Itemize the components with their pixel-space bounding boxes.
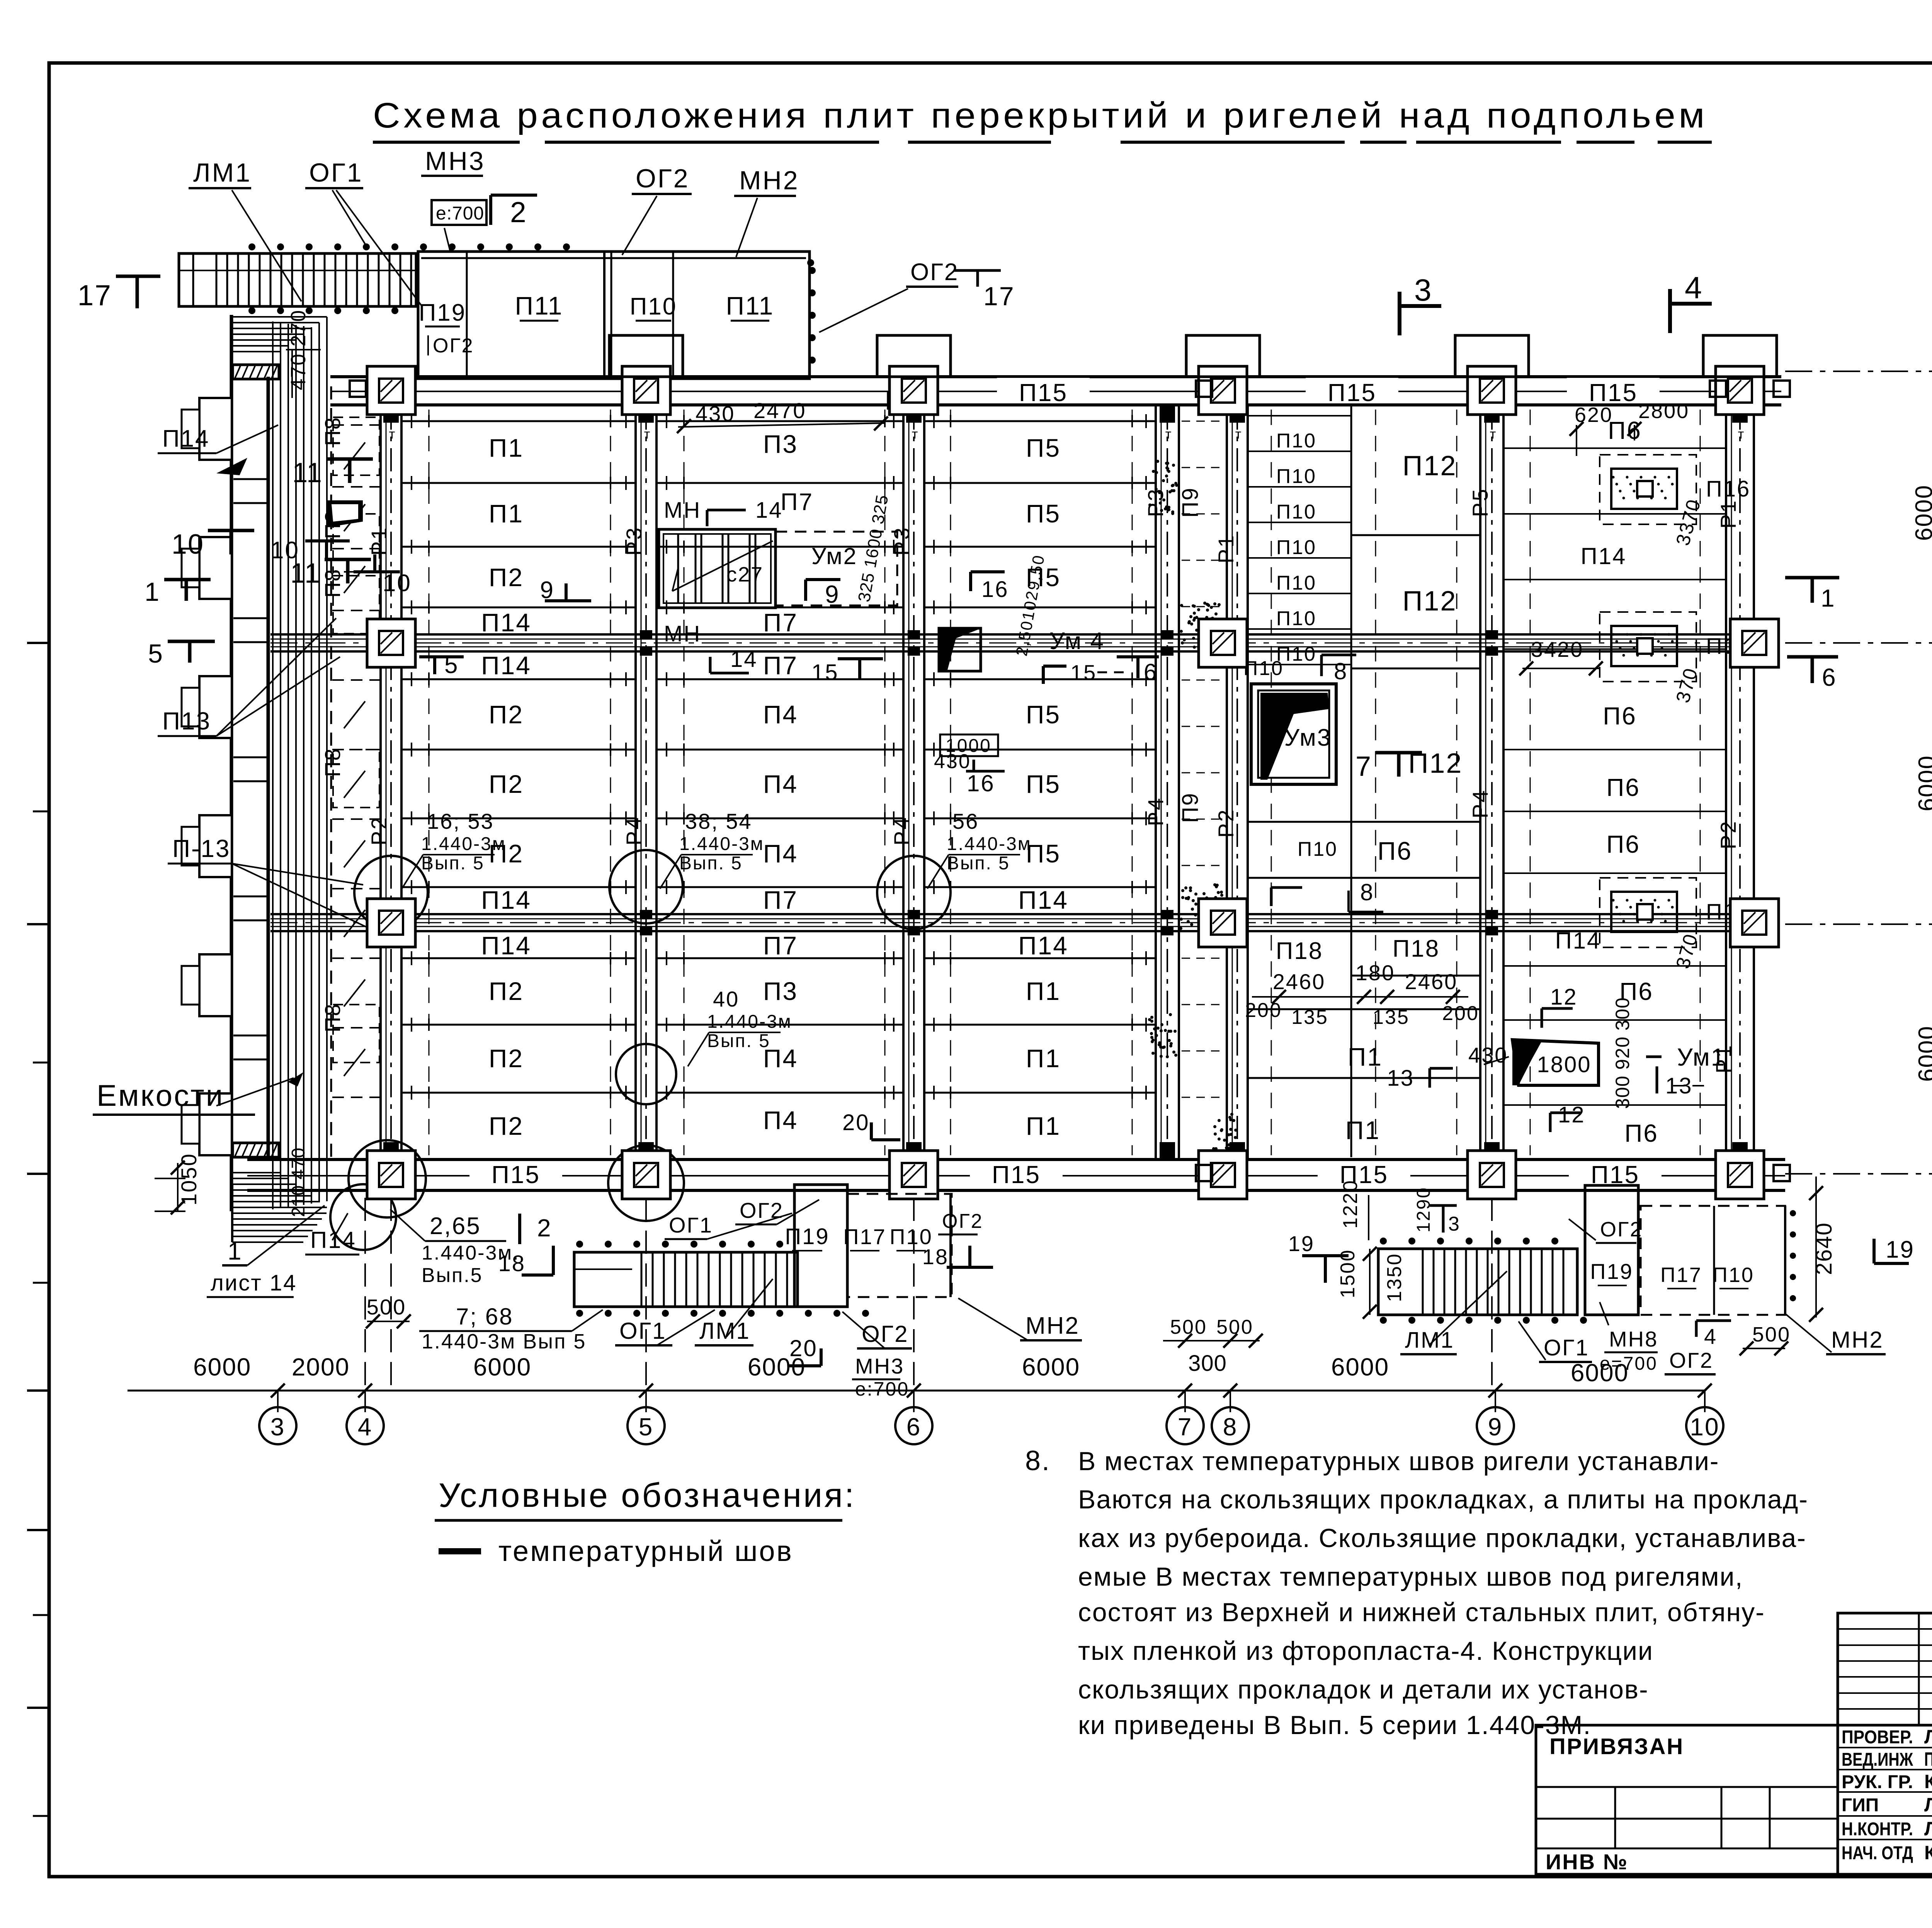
axis row В beam	[270, 633, 1731, 636]
tank bay divider lines	[233, 478, 267, 480]
svg-text:П12: П12	[1403, 451, 1457, 481]
svg-text:180: 180	[1355, 961, 1395, 985]
svg-text:15: 15	[811, 660, 839, 685]
svg-text:8.: 8.	[1025, 1445, 1051, 1476]
svg-text:П19: П19	[1590, 1259, 1633, 1284]
svg-text:Ум3: Ум3	[1284, 724, 1332, 751]
svg-text:10: 10	[172, 529, 204, 560]
svg-text:17: 17	[78, 279, 112, 311]
svg-text:19: 19	[1288, 1231, 1315, 1256]
svg-text:6000: 6000	[473, 1353, 531, 1381]
svg-text:5: 5	[148, 639, 164, 668]
svg-text:9: 9	[1488, 1413, 1503, 1441]
svg-text:5: 5	[444, 652, 459, 678]
svg-text:ки приведены В Вып. 5 серии 1.: ки приведены В Вып. 5 серии 1.440-3М.	[1078, 1710, 1591, 1740]
svg-text:Вып. 5: Вып. 5	[947, 853, 1010, 874]
svg-text:1.440-3м: 1.440-3м	[679, 834, 764, 854]
svg-text:т: т	[389, 427, 396, 442]
svg-text:П7: П7	[763, 651, 798, 680]
svg-text:ЛМ1: ЛМ1	[193, 158, 252, 187]
svg-text:состоят из Верхней и нижней ст: состоят из Верхней и нижней стальных пли…	[1078, 1598, 1765, 1627]
svg-text:П7: П7	[763, 931, 798, 960]
left tank walls (Емкости)	[230, 315, 233, 1211]
svg-text:П1: П1	[1026, 1044, 1061, 1073]
stipple patches at joint 7-8	[1155, 488, 1158, 491]
svg-text:П9: П9	[1178, 487, 1203, 518]
svg-text:14: 14	[755, 498, 783, 523]
svg-text:П7: П7	[781, 489, 813, 515]
svg-text:ОГ2: ОГ2	[433, 335, 474, 357]
svg-text:6000: 6000	[1022, 1353, 1080, 1381]
svg-text:П14: П14	[1555, 928, 1601, 954]
svg-text:1: 1	[228, 1237, 243, 1265]
svg-text:МН2: МН2	[1831, 1327, 1884, 1353]
svg-text:МН3: МН3	[425, 146, 485, 176]
svg-text:135: 135	[1291, 1006, 1328, 1029]
svg-text:430: 430	[934, 750, 971, 773]
svg-text:ЛМ1: ЛМ1	[1405, 1328, 1454, 1353]
svg-text:П10: П10	[1276, 607, 1316, 630]
svg-text:П17: П17	[1660, 1263, 1702, 1287]
svg-text:8: 8	[1360, 879, 1374, 905]
svg-text:П10: П10	[1713, 1263, 1754, 1287]
bottom axis circles and dimension line	[128, 1390, 1705, 1392]
svg-text:1800: 1800	[1537, 1052, 1591, 1077]
svg-text:1.440-3м: 1.440-3м	[707, 1012, 792, 1032]
8| mark bay 8 area	[1270, 887, 1273, 906]
svg-text:ках из рубероида. Скользящие п: ках из рубероида. Скользящие прокладки, …	[1078, 1523, 1806, 1553]
right axis circles and dim chain	[1785, 371, 1932, 372]
svg-text:т: т	[1165, 427, 1173, 442]
svg-text:17: 17	[983, 282, 1015, 311]
svg-text:МН2: МН2	[1026, 1313, 1080, 1339]
svg-text:ОГ1: ОГ1	[669, 1213, 713, 1237]
vertical beams (ригели)	[379, 406, 382, 1158]
svg-text:П5: П5	[1026, 700, 1061, 729]
svg-text:ОГ2: ОГ2	[636, 164, 690, 193]
svg-text:2,65: 2,65	[430, 1213, 481, 1239]
markers Т5, 15, 9, 10 etc	[433, 657, 436, 674]
svg-text:7: 7	[1355, 751, 1372, 782]
svg-text:8: 8	[1334, 658, 1348, 684]
horizontal band А (П15)	[247, 1158, 1785, 1161]
svg-text:П3: П3	[763, 430, 798, 458]
svg-text:П14: П14	[1018, 931, 1068, 960]
section marks 3,4 top	[1398, 292, 1401, 335]
svg-text:6: 6	[1822, 663, 1837, 691]
svg-text:18: 18	[922, 1245, 949, 1269]
svg-text:П18: П18	[1276, 938, 1323, 964]
svg-text:2460: 2460	[1405, 969, 1458, 994]
svg-text:П11: П11	[726, 291, 774, 320]
svg-text:Ум 4: Ум 4	[1049, 628, 1105, 655]
svg-text:П2: П2	[489, 700, 524, 729]
svg-text:10: 10	[1690, 1413, 1719, 1441]
svg-text:П15: П15	[1019, 379, 1068, 406]
svg-text:П14: П14	[1581, 543, 1627, 569]
svg-text:2000: 2000	[292, 1353, 350, 1381]
svg-text:П14: П14	[1018, 886, 1068, 914]
svg-text:ЛОУЦКЕР: ЛОУЦКЕР	[1924, 1726, 1932, 1748]
svg-text:210 470: 210 470	[288, 1147, 309, 1217]
В/Б Т-marks at columns	[1811, 578, 1814, 603]
svg-text:9: 9	[540, 577, 554, 604]
svg-text:П10: П10	[1276, 572, 1316, 594]
svg-text:Р2: Р2	[1214, 808, 1238, 838]
svg-text:19: 19	[1886, 1236, 1915, 1263]
svg-text:с27: с27	[726, 563, 764, 586]
svg-text:П6: П6	[1608, 417, 1642, 444]
svg-text:430: 430	[696, 401, 735, 426]
svg-text:20: 20	[789, 1335, 818, 1361]
svg-text:Р5: Р5	[1468, 488, 1492, 517]
black wedge + Ум4 bay 6-7 near В	[939, 628, 981, 671]
svg-text:200: 200	[1442, 1002, 1479, 1025]
svg-text:135: 135	[1372, 1006, 1410, 1029]
tank bottom cap extension below А	[232, 1212, 327, 1214]
svg-text:3: 3	[1414, 273, 1433, 307]
upper stair ЛМ1	[179, 253, 416, 306]
svg-text:Ум1: Ум1	[1677, 1043, 1726, 1071]
slab edge lines per bay	[402, 420, 636, 422]
svg-text:1: 1	[1821, 584, 1836, 612]
svg-text:3420: 3420	[1531, 637, 1584, 661]
svg-text:П10: П10	[1276, 430, 1316, 452]
svg-text:П14: П14	[481, 931, 531, 960]
svg-text:т: т	[1490, 427, 1497, 442]
svg-text:П10: П10	[1243, 657, 1284, 680]
svg-text:П2: П2	[489, 1112, 524, 1140]
svg-text:П6: П6	[1606, 830, 1640, 858]
axis row Б beam	[270, 913, 1731, 915]
beam end stubs	[383, 406, 399, 423]
svg-text:ОГ2: ОГ2	[942, 1210, 983, 1233]
bottom-right stairs	[1378, 1249, 1577, 1315]
svg-text:П11: П11	[515, 291, 563, 320]
svg-text:5: 5	[639, 1413, 654, 1441]
svg-text:ВЕД.ИНЖ: ВЕД.ИНЖ	[1842, 1749, 1913, 1770]
svg-text:3: 3	[1448, 1213, 1461, 1235]
svg-text:Вып. 5: Вып. 5	[421, 853, 485, 874]
svg-text:ОГ1: ОГ1	[619, 1318, 667, 1344]
svg-text:2460: 2460	[1273, 969, 1326, 994]
svg-text:МН3: МН3	[855, 1354, 904, 1378]
svg-text:ПРИВЯЗАН: ПРИВЯЗАН	[1549, 1734, 1684, 1759]
svg-text:П1: П1	[489, 499, 524, 528]
svg-text:РУК. ГР.: РУК. ГР.	[1842, 1772, 1913, 1792]
svg-text:ЛОУЦКЕР: ЛОУЦКЕР	[1924, 1794, 1932, 1816]
svg-text:8: 8	[1223, 1413, 1238, 1441]
hatched wall bar top	[233, 365, 279, 379]
svg-text:МН: МН	[664, 621, 701, 646]
svg-text:П4: П4	[763, 770, 798, 798]
svg-text:Р4: Р4	[1468, 789, 1492, 819]
svg-text:3: 3	[270, 1413, 286, 1441]
svg-text:ОГ2: ОГ2	[740, 1198, 784, 1222]
left border ticks	[27, 642, 49, 644]
svg-text:12: 12	[1550, 984, 1578, 1010]
svg-text:Н.КОНТР.: Н.КОНТР.	[1842, 1819, 1913, 1840]
П19 П17 П10 plates bottom-centre	[794, 1185, 847, 1307]
svg-text:300: 300	[1188, 1351, 1227, 1376]
svg-text:П14: П14	[481, 608, 531, 637]
svg-text:Р1: Р1	[1214, 534, 1238, 564]
svg-text:20: 20	[842, 1110, 870, 1135]
dashed slab joint lines (vertical) in bays	[429, 410, 430, 1155]
svg-text:П6: П6	[1378, 836, 1412, 865]
svg-text:1: 1	[145, 577, 160, 607]
svg-text:ОГ2: ОГ2	[1600, 1218, 1643, 1241]
svg-text:300 920 300: 300 920 300	[1612, 997, 1633, 1109]
svg-text:18: 18	[498, 1251, 526, 1276]
svg-text:200: 200	[1245, 999, 1282, 1022]
horizontal band Г (П15)	[330, 375, 1781, 378]
svg-text:7; 68: 7; 68	[456, 1304, 513, 1330]
svg-text:П2: П2	[489, 977, 524, 1005]
svg-text:П9: П9	[1178, 792, 1203, 823]
svg-text:П4: П4	[763, 700, 798, 729]
svg-text:МН8: МН8	[1609, 1327, 1658, 1351]
svg-text:56: 56	[952, 809, 979, 833]
svg-text:Вып. 5: Вып. 5	[679, 853, 743, 874]
svg-text:П17: П17	[843, 1224, 886, 1249]
svg-text:4: 4	[1685, 270, 1703, 305]
svg-text:1290: 1290	[1413, 1187, 1434, 1233]
portal outlines above Г row	[609, 335, 683, 377]
svg-text:ОГ2: ОГ2	[1669, 1348, 1713, 1372]
svg-text:П5: П5	[1026, 434, 1061, 462]
svg-text:38; 54: 38; 54	[685, 809, 752, 833]
svg-text:П2: П2	[489, 563, 524, 592]
П19 П17 П10 plates bottom-right	[1585, 1185, 1638, 1315]
svg-text:П5: П5	[1026, 499, 1061, 528]
svg-text:П15: П15	[992, 1161, 1041, 1188]
svg-text:скользящих прокладок и детали: скользящих прокладок и детали их установ…	[1078, 1675, 1649, 1704]
svg-text:500: 500	[1170, 1316, 1207, 1338]
svg-text:16: 16	[967, 770, 995, 796]
svg-text:2: 2	[537, 1214, 552, 1242]
svg-text:Ваются на скользящих прокладка: Ваются на скользящих прокладках, а плиты…	[1078, 1485, 1808, 1514]
Ум3 opening	[1251, 684, 1336, 784]
svg-text:15: 15	[1070, 660, 1097, 685]
svg-text:Р4: Р4	[1143, 797, 1168, 826]
svg-text:ЛОУЦКЕР: ЛОУЦКЕР	[1924, 1818, 1932, 1840]
svg-text:Условные обозначения:: Условные обозначения:	[439, 1476, 856, 1514]
svg-text:14: 14	[730, 647, 758, 672]
svg-text:ИНВ №: ИНВ №	[1546, 1850, 1628, 1874]
svg-text:11: 11	[292, 457, 323, 488]
small squares next to boxes	[350, 381, 366, 397]
svg-text:МН: МН	[664, 498, 701, 523]
hatched wall bar bottom	[233, 1143, 279, 1157]
dashed opening extension Ум2	[776, 532, 897, 605]
svg-text:ОГ2: ОГ2	[910, 259, 959, 286]
svg-text:1.440-3м: 1.440-3м	[947, 834, 1032, 854]
svg-text:Вып. 5: Вып. 5	[707, 1031, 770, 1051]
svg-text:т: т	[1235, 427, 1243, 442]
svg-text:П6: П6	[1624, 1119, 1658, 1147]
svg-text:620: 620	[1575, 403, 1613, 427]
bottom-centre stairs ЛМ1	[574, 1252, 798, 1307]
1000 430 16 cluster bay 6-7	[940, 734, 998, 756]
svg-text:2470: 2470	[753, 398, 806, 423]
svg-text:тых пленкой из фторопласта-4.: тых пленкой из фторопласта-4. Конструкци…	[1078, 1636, 1653, 1666]
svg-text:9: 9	[825, 580, 840, 608]
svg-text:e=700: e=700	[1600, 1353, 1658, 1374]
svg-text:П-13: П-13	[172, 835, 231, 862]
svg-text:т: т	[912, 427, 919, 442]
svg-text:1.440-3м: 1.440-3м	[421, 834, 506, 854]
section mark 17 left	[136, 276, 139, 308]
svg-text:2: 2	[510, 196, 527, 228]
svg-text:Емкости: Емкости	[97, 1078, 224, 1112]
svg-text:П19: П19	[419, 299, 466, 326]
svg-text:10: 10	[270, 537, 299, 564]
big circles (temperature joint details)	[354, 856, 428, 929]
svg-text:П4: П4	[763, 1106, 798, 1134]
svg-text:Р2: Р2	[1716, 820, 1740, 850]
svg-text:1.440-3м Вып 5: 1.440-3м Вып 5	[422, 1330, 586, 1353]
black wedge left near axis4 top	[327, 500, 363, 527]
svg-text:Вып.5: Вып.5	[422, 1264, 483, 1287]
stair opening in bay 5-6 (с27)	[659, 529, 776, 608]
svg-text:емые В местах температурных шв: емые В местах температурных швов под риг…	[1078, 1562, 1743, 1591]
svg-text:4: 4	[1704, 1324, 1717, 1348]
svg-text:12: 12	[1558, 1102, 1585, 1127]
svg-text:Р2: Р2	[367, 816, 391, 846]
2640 dim bottom right	[1815, 1177, 1817, 1318]
svg-text:П1: П1	[1026, 1112, 1061, 1140]
svg-text:П1: П1	[1348, 1042, 1383, 1071]
svg-text:П19: П19	[785, 1224, 829, 1249]
svg-text:13: 13	[1387, 1066, 1414, 1091]
svg-text:4: 4	[358, 1413, 373, 1441]
svg-text:6: 6	[906, 1413, 922, 1441]
svg-text:e:700: e:700	[436, 203, 484, 224]
svg-text:7: 7	[1178, 1413, 1193, 1441]
svg-text:ОГ1: ОГ1	[309, 158, 363, 187]
svg-text:П10: П10	[630, 293, 677, 320]
left notches of tank (white recesses)	[199, 398, 232, 460]
svg-text:16; 53: 16; 53	[427, 809, 494, 833]
svg-text:6000: 6000	[193, 1353, 251, 1381]
svg-text:П7: П7	[763, 886, 798, 914]
svg-text:КРАСНОВА: КРАСНОВА	[1924, 1771, 1932, 1792]
svg-text:Схема расположения плит п: Схема расположения плит перекрытий и риг…	[373, 96, 1708, 135]
svg-text:2800: 2800	[1638, 400, 1689, 423]
svg-text:ОГ1: ОГ1	[1544, 1335, 1589, 1360]
svg-text:П6: П6	[1603, 702, 1637, 730]
svg-text:П10: П10	[1276, 501, 1316, 523]
beam stubs at В and Б crossings	[640, 630, 652, 639]
svg-text:КРАСАВИН: КРАСАВИН	[1924, 1842, 1932, 1863]
column boxes	[367, 366, 415, 415]
svg-text:6000: 6000	[1914, 755, 1932, 811]
svg-text:МН2: МН2	[739, 166, 799, 195]
svg-text:Р3: Р3	[1143, 488, 1168, 517]
svg-text:П10: П10	[1276, 465, 1316, 488]
svg-text:лист 14: лист 14	[211, 1270, 297, 1296]
svg-text:1350: 1350	[1383, 1253, 1406, 1302]
svg-text:П2: П2	[489, 770, 524, 798]
svg-text:П1: П1	[1026, 977, 1061, 1005]
svg-text:П13: П13	[162, 707, 211, 735]
svg-text:П14: П14	[162, 425, 210, 452]
П8 bay strip between tank and axis 4 beam	[330, 386, 332, 1163]
svg-text:6: 6	[1144, 659, 1158, 685]
svg-text:40: 40	[713, 987, 739, 1011]
svg-text:ЛМ1: ЛМ1	[699, 1318, 750, 1344]
Ум1 opening 1800	[1512, 1040, 1599, 1085]
svg-text:П14: П14	[481, 886, 531, 914]
svg-text:П10: П10	[1276, 536, 1316, 559]
svg-text:П5: П5	[1026, 770, 1061, 798]
svg-text:2640: 2640	[1811, 1222, 1837, 1275]
svg-text:П14: П14	[481, 651, 531, 680]
svg-text:П6: П6	[1606, 774, 1640, 801]
svg-text:П4: П4	[763, 839, 798, 868]
svg-text:температурный шов: температурный шов	[498, 1535, 793, 1567]
svg-text:500: 500	[1752, 1323, 1791, 1346]
svg-text:ГИП: ГИП	[1842, 1795, 1879, 1816]
svg-text:16: 16	[981, 577, 1009, 602]
svg-text:П1: П1	[1345, 1116, 1380, 1144]
svg-text:П7: П7	[763, 608, 798, 637]
svg-text:т: т	[1738, 427, 1745, 442]
svg-text:т: т	[644, 427, 651, 442]
svg-text:1220: 1220	[1339, 1179, 1362, 1229]
svg-text:НАЧ. ОТД: НАЧ. ОТД	[1842, 1843, 1913, 1863]
svg-text:П18: П18	[1393, 935, 1440, 962]
svg-text:П2: П2	[489, 1044, 524, 1073]
svg-text:10: 10	[383, 570, 412, 597]
svg-text:6000: 6000	[1331, 1353, 1389, 1381]
svg-text:П12: П12	[1403, 586, 1457, 617]
svg-text:П16: П16	[1706, 476, 1750, 502]
svg-text:ПРОВЕР.: ПРОВЕР.	[1842, 1727, 1913, 1748]
svg-text:П15: П15	[1589, 379, 1638, 406]
svg-text:500: 500	[367, 1295, 406, 1319]
svg-text:П15: П15	[1328, 379, 1376, 406]
svg-text:ПРОХОРОВА: ПРОХОРОВА	[1924, 1748, 1932, 1770]
svg-text:П10: П10	[1298, 838, 1338, 860]
title block	[1838, 1613, 1932, 1725]
svg-text:Ум2: Ум2	[811, 543, 857, 569]
svg-text:6000: 6000	[1911, 485, 1932, 541]
svg-text:П15: П15	[492, 1161, 540, 1188]
svg-text:П3: П3	[763, 977, 798, 1005]
upper sub-plan МН2 plates П19 П11 П10 П11	[418, 252, 810, 379]
svg-text:Р1: Р1	[367, 526, 391, 556]
svg-text:В местах температурных швов ри: В местах температурных швов ригели устан…	[1078, 1447, 1719, 1476]
svg-text:П1: П1	[489, 434, 524, 462]
svg-text:e:700: e:700	[855, 1378, 909, 1400]
svg-text:6000: 6000	[1914, 1025, 1932, 1082]
